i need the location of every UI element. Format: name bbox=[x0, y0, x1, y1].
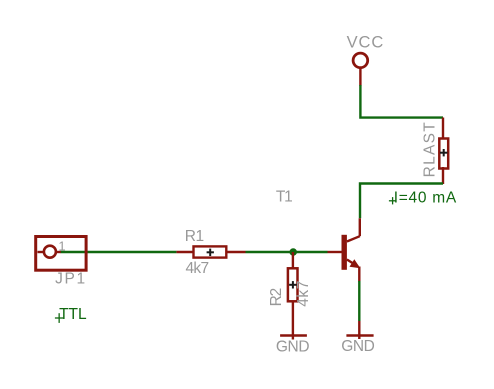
svg-text:TTL: TTL bbox=[59, 306, 87, 323]
wire RLAST to collector bbox=[360, 184, 443, 219]
svg-text:JP1: JP1 bbox=[55, 270, 87, 287]
svg-text:4k7: 4k7 bbox=[186, 260, 209, 277]
ground GND (left) bbox=[276, 336, 309, 356]
resistor RLAST bbox=[422, 118, 449, 185]
svg-text:T1: T1 bbox=[276, 189, 292, 206]
svg-text:4k7: 4k7 bbox=[295, 280, 312, 307]
svg-text:GND: GND bbox=[276, 339, 309, 356]
wire base to junction to R1 bbox=[246, 251, 328, 253]
wire VCC to RLAST bbox=[360, 85, 443, 118]
wire emitter to GND bbox=[358, 281, 360, 321]
connector JP1 bbox=[36, 237, 87, 288]
label TTL bbox=[55, 306, 87, 323]
wire R1 to JP1 bbox=[61, 251, 177, 253]
junction dot bbox=[289, 248, 297, 256]
svg-text:R1: R1 bbox=[185, 228, 204, 245]
transistor T1 bbox=[276, 189, 360, 282]
ground GND (right) bbox=[341, 336, 374, 356]
svg-text:VCC: VCC bbox=[347, 34, 385, 52]
svg-text:I=40 mA: I=40 mA bbox=[394, 189, 457, 206]
svg-text:RLAST: RLAST bbox=[422, 121, 439, 177]
power symbol VCC bbox=[347, 34, 385, 86]
svg-text:R2: R2 bbox=[268, 288, 285, 306]
svg-text:1: 1 bbox=[58, 238, 65, 253]
label I=40 mA bbox=[389, 189, 457, 206]
resistor R1 bbox=[176, 228, 245, 277]
resistor R2 bbox=[268, 252, 312, 340]
svg-text:GND: GND bbox=[341, 338, 374, 355]
